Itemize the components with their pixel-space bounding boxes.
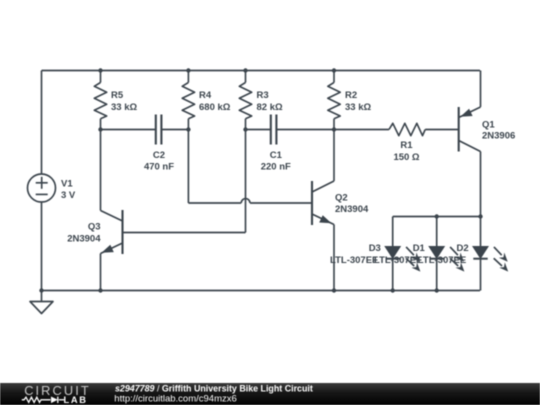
svg-text:R3: R3 (257, 90, 269, 101)
svg-text:LTL-307EE: LTL-307EE (374, 255, 422, 266)
svg-text:R4: R4 (199, 90, 212, 101)
svg-text:LAB: LAB (64, 395, 88, 405)
svg-text:V1: V1 (61, 179, 73, 190)
svg-text:2N3904: 2N3904 (67, 234, 101, 245)
svg-text:C1: C1 (270, 150, 283, 161)
svg-text:Q3: Q3 (88, 222, 101, 233)
svg-text:33 kΩ: 33 kΩ (345, 102, 371, 113)
svg-text:LTL-307EE: LTL-307EE (330, 255, 378, 266)
svg-text:470 nF: 470 nF (144, 162, 174, 173)
svg-text:Q1: Q1 (482, 120, 495, 131)
svg-text:LTL-307EE: LTL-307EE (418, 255, 466, 266)
svg-text:2N3904: 2N3904 (335, 204, 369, 215)
svg-text:Q2: Q2 (335, 193, 348, 204)
svg-text:D1: D1 (413, 243, 426, 254)
svg-text:http://circuitlab.com/c94mzx6: http://circuitlab.com/c94mzx6 (114, 394, 237, 405)
svg-text:R5: R5 (111, 90, 124, 101)
svg-text:R1: R1 (400, 140, 413, 151)
svg-text:220 nF: 220 nF (261, 162, 291, 173)
svg-text:3 V: 3 V (61, 190, 76, 201)
svg-text:150 Ω: 150 Ω (393, 152, 419, 163)
svg-text:R2: R2 (345, 90, 357, 101)
svg-text:D2: D2 (457, 243, 469, 254)
svg-text:s2947789 / Griffith University: s2947789 / Griffith University Bike Ligh… (115, 383, 313, 393)
svg-text:2N3906: 2N3906 (482, 131, 515, 142)
svg-text:C2: C2 (153, 150, 165, 161)
svg-text:680 kΩ: 680 kΩ (199, 102, 231, 113)
svg-text:33 kΩ: 33 kΩ (111, 102, 137, 113)
svg-text:D3: D3 (369, 243, 381, 254)
svg-text:82 kΩ: 82 kΩ (257, 102, 283, 113)
